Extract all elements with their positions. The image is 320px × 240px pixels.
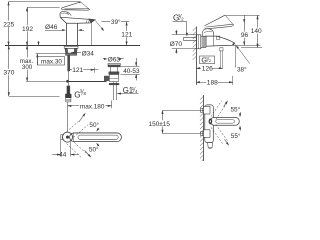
svg-text:40-53: 40-53 (123, 68, 140, 75)
svg-text:44: 44 (59, 152, 67, 159)
svg-text:121: 121 (121, 32, 132, 39)
svg-text:Ø70: Ø70 (170, 41, 183, 48)
svg-text:max.30: max.30 (41, 59, 62, 66)
svg-text:50°: 50° (89, 146, 99, 154)
svg-text:55°: 55° (231, 105, 241, 113)
svg-text:192: 192 (22, 26, 33, 33)
svg-text:Ø46: Ø46 (45, 24, 58, 31)
svg-text:150±15: 150±15 (149, 121, 171, 128)
svg-text:300: 300 (22, 64, 33, 71)
svg-text:39°: 39° (111, 18, 121, 26)
svg-text:96: 96 (241, 32, 249, 39)
svg-text:370: 370 (3, 69, 14, 76)
svg-text:max.180: max.180 (80, 104, 105, 111)
svg-text:121: 121 (72, 67, 83, 74)
svg-text:126: 126 (202, 66, 213, 73)
svg-text:225: 225 (3, 21, 14, 28)
svg-text:38°: 38° (237, 66, 247, 74)
svg-text:188: 188 (207, 80, 218, 87)
svg-text:55°: 55° (231, 132, 241, 140)
svg-text:Ø34: Ø34 (82, 51, 95, 58)
svg-text:Ø63: Ø63 (108, 56, 121, 63)
svg-text:140: 140 (251, 28, 262, 35)
svg-text:50°: 50° (89, 121, 99, 129)
